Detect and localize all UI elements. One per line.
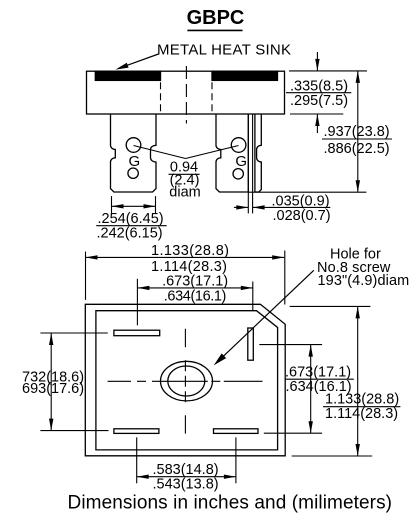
svg-text:193"(4.9)diam: 193"(4.9)diam (318, 273, 410, 289)
label 732(18.6)/693(17.6) (22, 369, 84, 397)
extension line body bottom (290, 113, 343, 115)
centerline of body (185, 66, 187, 124)
dimension .254/.242 line with arrows (112, 204, 156, 208)
leader to mounting hole (214, 270, 314, 365)
terminal bottom-left (114, 429, 159, 434)
heat sink bar left (95, 71, 160, 80)
label .583(14.8)/.543(13.8) (153, 462, 219, 492)
svg-text:.242(6.15): .242(6.15) (97, 226, 163, 242)
svg-text:.295(7.5): .295(7.5) (290, 93, 348, 109)
mounting hole outer (161, 361, 213, 401)
package outline inner (96, 311, 278, 450)
svg-text:1.114(28.3): 1.114(28.3) (325, 406, 398, 422)
label METAL HEAT SINK (157, 42, 291, 59)
label .035(0.9)/.028(0.7) (272, 194, 331, 224)
svg-text:.937(23.8): .937(23.8) (324, 124, 390, 140)
title GBPC (187, 7, 245, 29)
centerline horizontal (108, 380, 263, 382)
label 1.133(28.8)/1.114(28.3) top (151, 243, 229, 275)
svg-text:GBPC: GBPC (187, 7, 245, 29)
caption (68, 493, 393, 514)
fraction bar .335/.295 (286, 92, 351, 94)
dimension 1.133 right line with arrows (356, 306, 360, 456)
fraction bar 1.133/1.114 right (323, 406, 400, 408)
svg-text:693(17.6): 693(17.6) (22, 381, 84, 397)
mounting hole inner (168, 366, 205, 396)
lead edge lines / extension for thickness (247, 114, 249, 213)
heat sink bar right (212, 71, 278, 80)
label .673(17.1)/.634(16.1) top (162, 273, 228, 304)
svg-text:G: G (128, 153, 140, 170)
dimension .583/.543 extension lines (136, 437, 138, 483)
terminal bottom-right (214, 429, 259, 434)
label .335(8.5)/.295(7.5) (290, 79, 348, 109)
extension line body top (289, 70, 367, 72)
label 1.133(28.8)/1.114(28.3) right (325, 392, 399, 422)
lead right lower hole (233, 169, 243, 179)
label .673(17.1)/.634(16.1) right (285, 365, 352, 395)
fraction bar 0.94/(2.4) (169, 173, 200, 175)
leader lines hole diameter (134, 146, 186, 159)
dimension .673 right extension lines (259, 344, 322, 346)
fraction bar .254/.242 (96, 225, 167, 227)
dimension 1.133 top line with arrows (86, 255, 285, 259)
dimension .335/.295 arrows (315, 52, 319, 133)
svg-text:.634(16.1): .634(16.1) (164, 289, 227, 305)
lead left upper hole (126, 138, 141, 153)
svg-text:METAL HEAT SINK: METAL HEAT SINK (157, 42, 291, 59)
terminal right (248, 328, 254, 360)
dimension .673 top line with arrows (137, 286, 252, 290)
lead left polarity letter G (128, 153, 140, 170)
dimension 732/693 line with arrows (49, 333, 53, 431)
label .254(6.45) (97, 211, 164, 242)
fraction bar .937/.886 (322, 138, 392, 140)
label 0.94 (2.4) diam (169, 160, 200, 201)
package body (side view) (87, 71, 285, 114)
svg-text:1.133(28.8): 1.133(28.8) (151, 243, 229, 259)
svg-text:.886(22.5): .886(22.5) (324, 141, 390, 157)
package outline outer (top view) (85, 304, 285, 456)
label hole for no.8 screw (317, 246, 409, 289)
extension line lead bottom (249, 191, 367, 193)
dimension 732/693 extension lines (40, 332, 107, 334)
lead left lower hole (128, 168, 138, 178)
hidden line left (160, 71, 162, 114)
lead right polarity letter G (235, 153, 247, 170)
svg-text:diam: diam (169, 185, 200, 201)
svg-text:.673(17.1): .673(17.1) (162, 273, 228, 289)
rear lead profile (edge view) (255, 114, 261, 192)
dimension .673 top extension lines (136, 279, 138, 326)
svg-text:G: G (235, 153, 247, 170)
centerline vertical (184, 329, 186, 434)
dimension .035/.028 line with arrows (234, 205, 330, 209)
title underline (187, 29, 242, 31)
terminal top-left (114, 330, 160, 336)
lead right upper hole (231, 138, 246, 153)
svg-text:.028(0.7): .028(0.7) (273, 208, 331, 224)
label .937(23.8)/.886(22.5) (324, 124, 390, 157)
svg-text:Dimensions in inches and (mili: Dimensions in inches and (milimeters) (68, 493, 393, 514)
dimension 1.133 top extension lines (85, 252, 87, 300)
lead left (front) (110, 114, 156, 192)
lead right (front) (216, 114, 248, 192)
fraction bar .673/.634 right (285, 378, 354, 380)
dimension .254/.242 extension lines (111, 196, 113, 213)
dimension 1.133 right extension lines (290, 305, 371, 307)
dimension .583/.543 line with arrows (137, 475, 236, 479)
leader to heat sink (115, 54, 158, 70)
hidden line right (211, 71, 213, 114)
svg-text:.543(13.8): .543(13.8) (153, 476, 219, 492)
dimension .673 right line with arrows (309, 345, 313, 434)
dimension .937/.886 line (356, 71, 360, 192)
